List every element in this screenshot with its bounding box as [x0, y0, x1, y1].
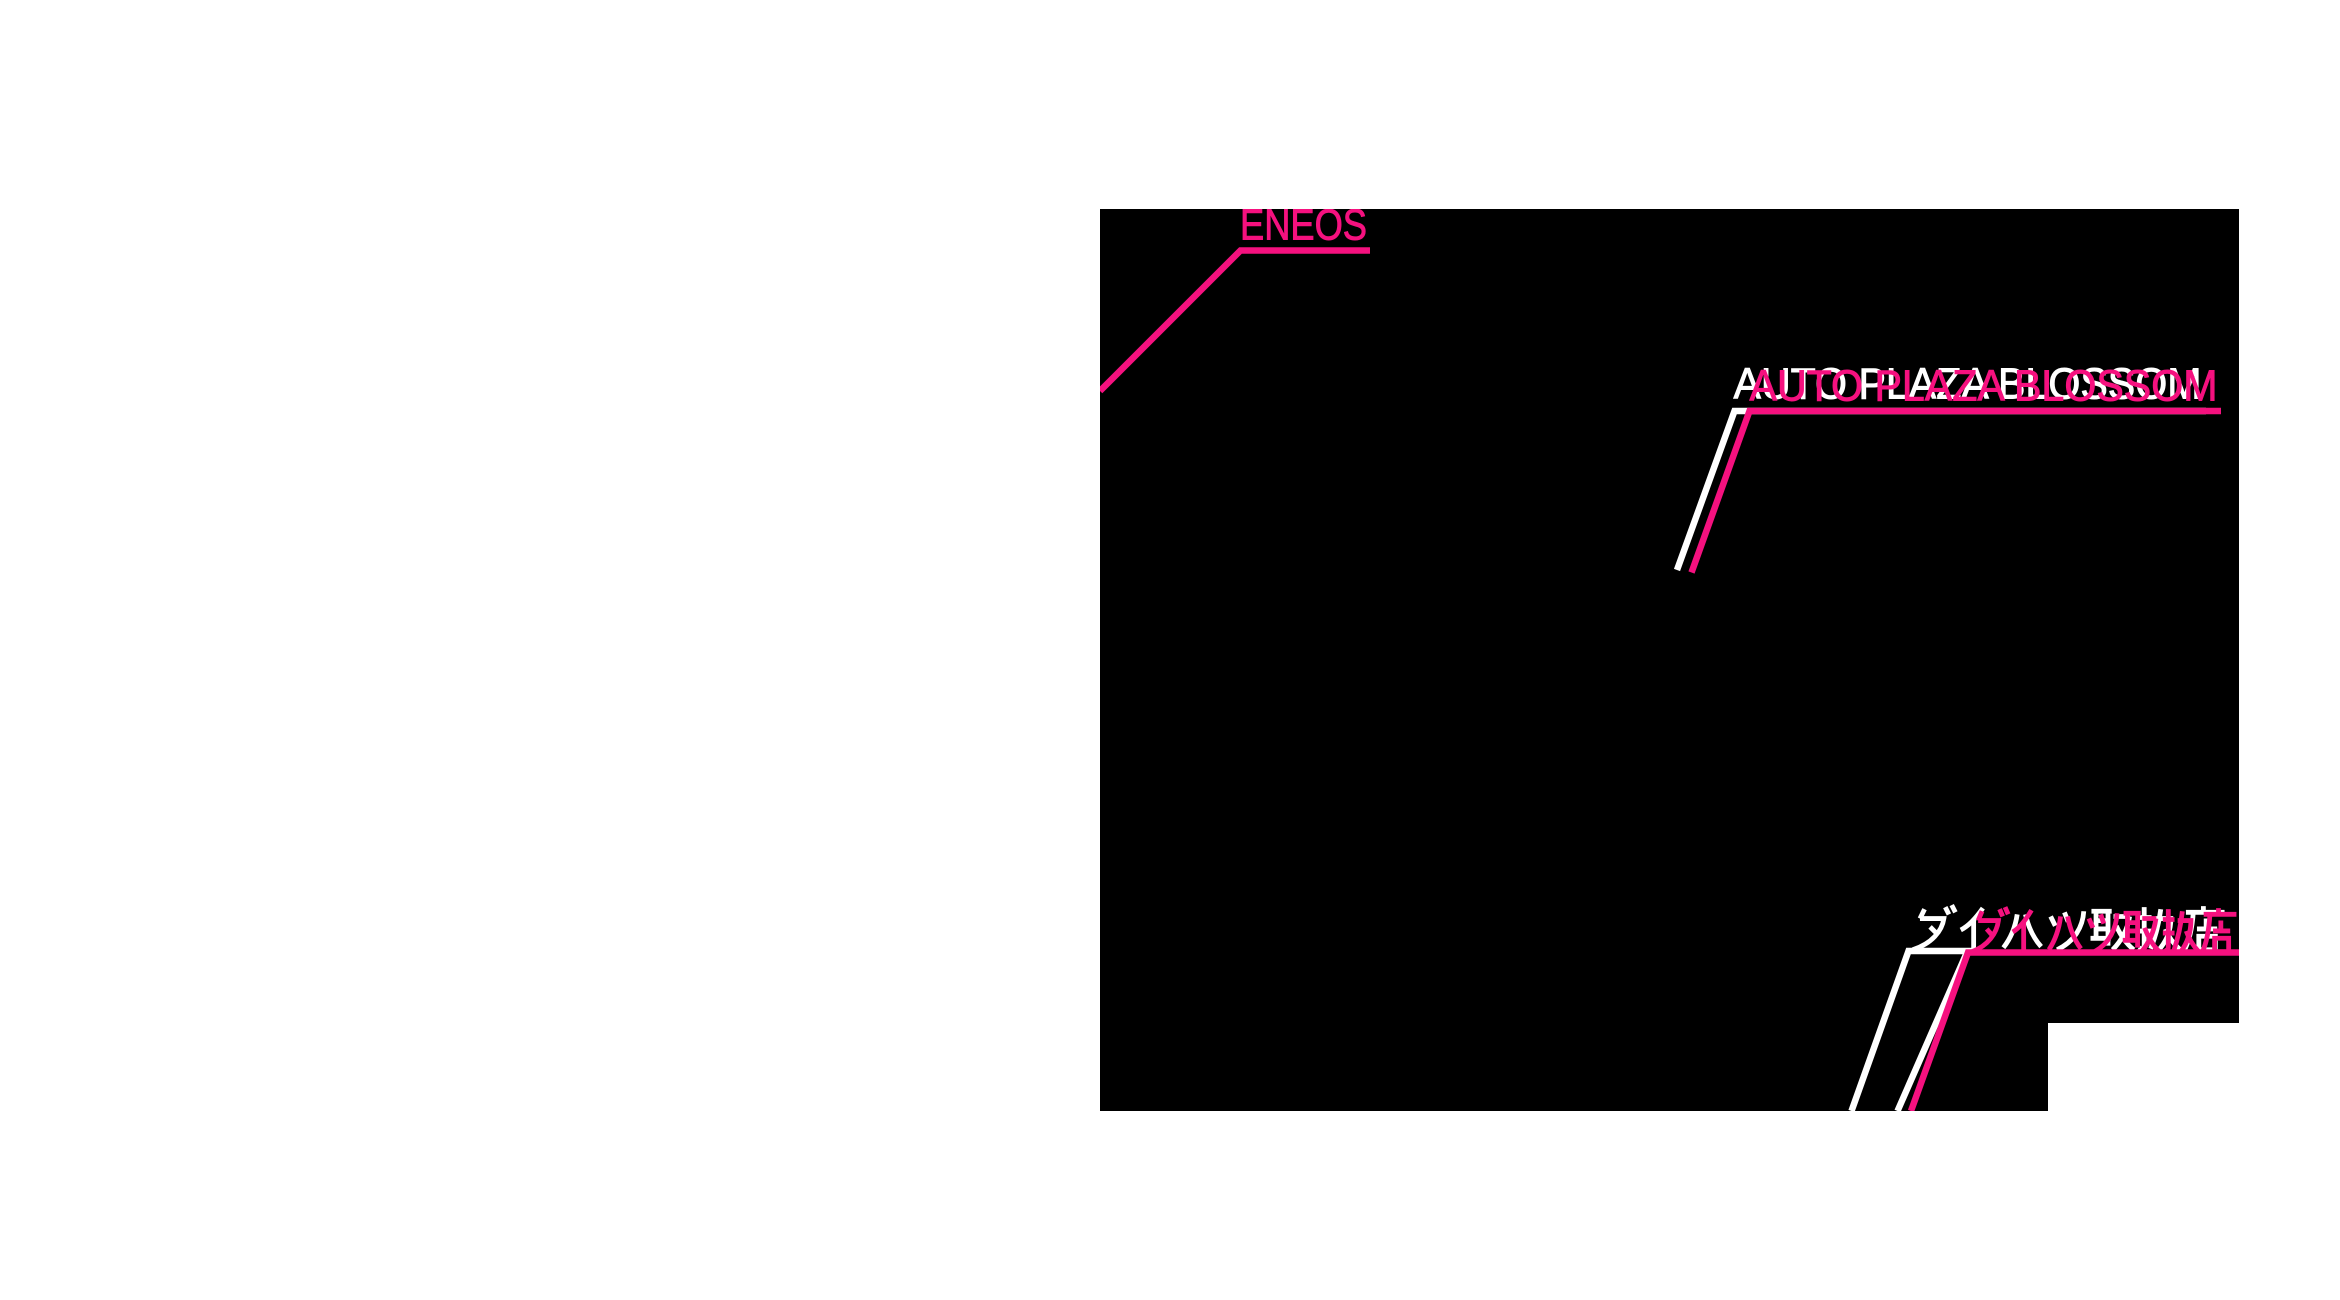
- label AUTO PLAZA BLOSSOM : white map copy: [1677, 361, 2206, 571]
- svg-text:AUTO PLAZA BLOSSOM: AUTO PLAZA BLOSSOM: [1750, 363, 2218, 411]
- label ENEOS: [1100, 202, 1370, 392]
- svg-text:ENEOS: ENEOS: [1240, 202, 1367, 250]
- label DAIHATSU dealer : white map copy: [1852, 905, 2225, 1111]
- label DAIHATSU dealer : pink overlay: [1911, 907, 2239, 1111]
- label AUTO PLAZA BLOSSOM : pink overlay: [1692, 363, 2222, 573]
- map image area (black): [1100, 209, 2239, 1111]
